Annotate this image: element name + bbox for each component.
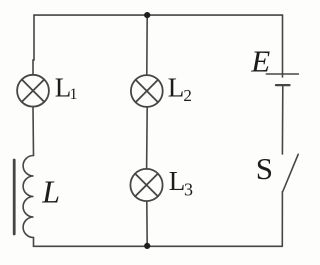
- wire left middle: [32, 107, 35, 156]
- svg-text:L: L: [168, 73, 185, 103]
- svg-text:L: L: [169, 166, 186, 196]
- battery E short plate: [276, 84, 290, 86]
- svg-text:S: S: [256, 151, 273, 186]
- svg-text:1: 1: [70, 86, 78, 103]
- wire left upper: [33, 15, 34, 75]
- lamp L2: [131, 75, 163, 107]
- inductor L coil: [23, 156, 33, 238]
- svg-text:E: E: [250, 44, 270, 79]
- lamp L1: [17, 75, 49, 107]
- wire left lower: [33, 238, 35, 247]
- node top junction: [144, 12, 150, 18]
- switch S blade: [283, 154, 298, 191]
- wire middle center: [146, 107, 149, 169]
- inductor core bar: [13, 160, 16, 234]
- lamp L3: [130, 169, 162, 201]
- wire right lower: [281, 192, 283, 247]
- wire top: [34, 14, 283, 16]
- wire right upper: [282, 15, 284, 77]
- svg-text:L: L: [41, 173, 60, 209]
- node bottom junction: [144, 243, 150, 249]
- wire middle upper: [146, 15, 148, 75]
- svg-text:2: 2: [183, 86, 192, 105]
- wire middle lower: [146, 201, 148, 246]
- wire bottom: [34, 245, 283, 247]
- battery E long plate: [266, 73, 298, 75]
- wire right middle: [281, 85, 283, 154]
- svg-text:3: 3: [184, 180, 193, 200]
